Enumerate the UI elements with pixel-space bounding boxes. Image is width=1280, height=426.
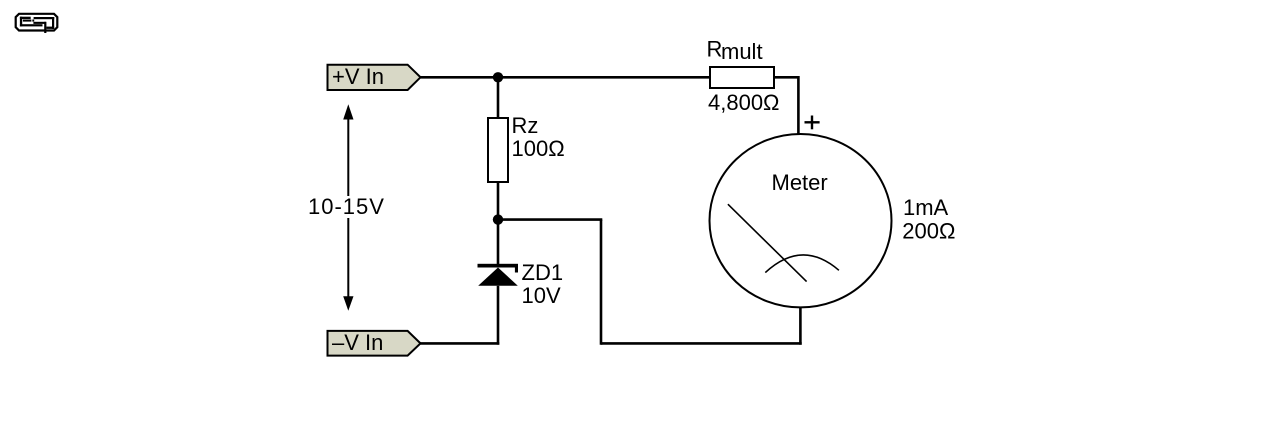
wire bottom horizontal <box>601 342 802 345</box>
zener diode ZD1 <box>478 264 519 286</box>
wire Rz to node <box>497 182 500 220</box>
wire to Rz <box>497 77 500 118</box>
resistor Rz <box>488 118 508 182</box>
wire Rmult to meter top <box>774 77 798 134</box>
svg-text:+V In: +V In <box>332 64 384 89</box>
svg-text:ZD1: ZD1 <box>522 260 564 285</box>
wire mid horizontal <box>498 218 602 221</box>
node junction mid <box>493 214 503 224</box>
svg-text:mult: mult <box>721 39 763 64</box>
svg-text:–V In: –V In <box>332 330 383 355</box>
tag -V In <box>328 331 421 356</box>
wire top <box>421 76 711 79</box>
wire bottom left <box>421 342 500 345</box>
svg-text:4,800Ω: 4,800Ω <box>708 90 780 115</box>
svg-text:1mA: 1mA <box>903 195 949 220</box>
meter M1 <box>710 134 892 307</box>
svg-text:R: R <box>707 36 723 61</box>
svg-text:Meter: Meter <box>772 170 828 195</box>
meter needle <box>728 204 807 281</box>
svg-text:100Ω: 100Ω <box>512 136 565 161</box>
tag +V In <box>328 65 421 90</box>
resistor Rmult <box>710 67 774 88</box>
ESP logo <box>16 14 58 33</box>
svg-text:Rz: Rz <box>512 113 539 138</box>
arrow 10-15V <box>347 112 349 303</box>
wire mid vertical <box>600 220 603 345</box>
svg-text:10V: 10V <box>522 283 561 308</box>
node junction top <box>493 72 503 82</box>
wire meter bottom <box>799 307 802 344</box>
svg-text:200Ω: 200Ω <box>902 218 955 243</box>
plus sign <box>805 116 820 130</box>
meter scale arc <box>765 255 839 273</box>
wire node to zener <box>497 220 500 264</box>
wire zener to bottom <box>497 286 500 345</box>
svg-text:10-15V: 10-15V <box>308 194 385 219</box>
